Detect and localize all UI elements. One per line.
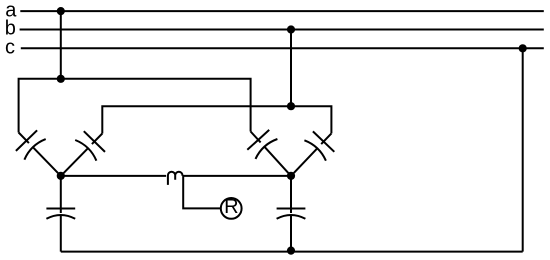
junction dot top frame [57, 75, 65, 83]
wire: tap down to relay R [183, 176, 221, 209]
capacitor C1 lead from junction [33, 147, 61, 176]
svg-text:c: c [5, 37, 15, 59]
junction dot left star point [57, 172, 65, 180]
wire: phase a bus [20, 10, 544, 12]
relay R circle [221, 198, 242, 219]
wire: bottom rail [61, 251, 523, 253]
capacitor C3 lead from corner (crosses straight plate) [251, 132, 261, 143]
wire: middle frame (phase b feeder) with end drops [102, 106, 331, 133]
capacitor C5 curved plate [46, 215, 75, 219]
junction dot bottom rail [287, 247, 295, 255]
wire: inductor to right junction [183, 175, 291, 177]
capacitor C1 curved plate [24, 139, 45, 160]
capacitor C2 straight plate [84, 131, 105, 152]
capacitor C2 lead from corner (crosses straight plate) [92, 134, 102, 145]
capacitor C4 lead from corner (crosses straight plate) [321, 133, 331, 144]
capacitor C5 lead from junction (crosses straight plate) [60, 176, 62, 213]
capacitor C6 lead to bottom rail [290, 215, 292, 252]
capacitor C2 curved plate [75, 140, 96, 161]
inductor coil (2 loops) [168, 172, 183, 185]
junction dot c-drop [519, 44, 527, 52]
wire: drop from phase c to bottom rail [522, 48, 524, 251]
wire: drop from phase b to middle frame [290, 30, 292, 107]
wire: phase c bus [21, 47, 544, 49]
capacitor C3 straight plate [247, 130, 269, 150]
junction dot middle frame [287, 102, 295, 110]
capacitor C2 lead from junction [61, 148, 88, 176]
junction dot b-drop [287, 25, 295, 33]
capacitor C1 lead from corner (crosses straight plate) [19, 133, 29, 144]
wire: drop from phase a to top frame [60, 11, 62, 79]
wire: phase b bus [20, 29, 544, 31]
capacitor C3 curved plate [256, 139, 278, 159]
capacitor C4 straight plate [313, 131, 334, 151]
capacitor C6 straight plate [277, 208, 306, 210]
capacitor C3 lead from junction [264, 147, 291, 176]
capacitor C4 lead from junction [291, 148, 317, 176]
junction dot a-drop [57, 7, 65, 15]
wire: left junction to inductor [61, 175, 166, 177]
wire: top frame (phase a feeder) with end drops [19, 79, 251, 133]
capacitor C5 lead to bottom rail [60, 215, 62, 252]
capacitor C1 straight plate [16, 130, 37, 151]
capacitor C5 straight plate [46, 208, 75, 210]
capacitor C6 curved plate [277, 215, 306, 219]
junction dot right star point [287, 172, 295, 180]
capacitor C4 curved plate [304, 140, 326, 160]
svg-text:R: R [224, 196, 238, 218]
capacitor C6 lead from junction (crosses straight plate) [290, 176, 292, 213]
